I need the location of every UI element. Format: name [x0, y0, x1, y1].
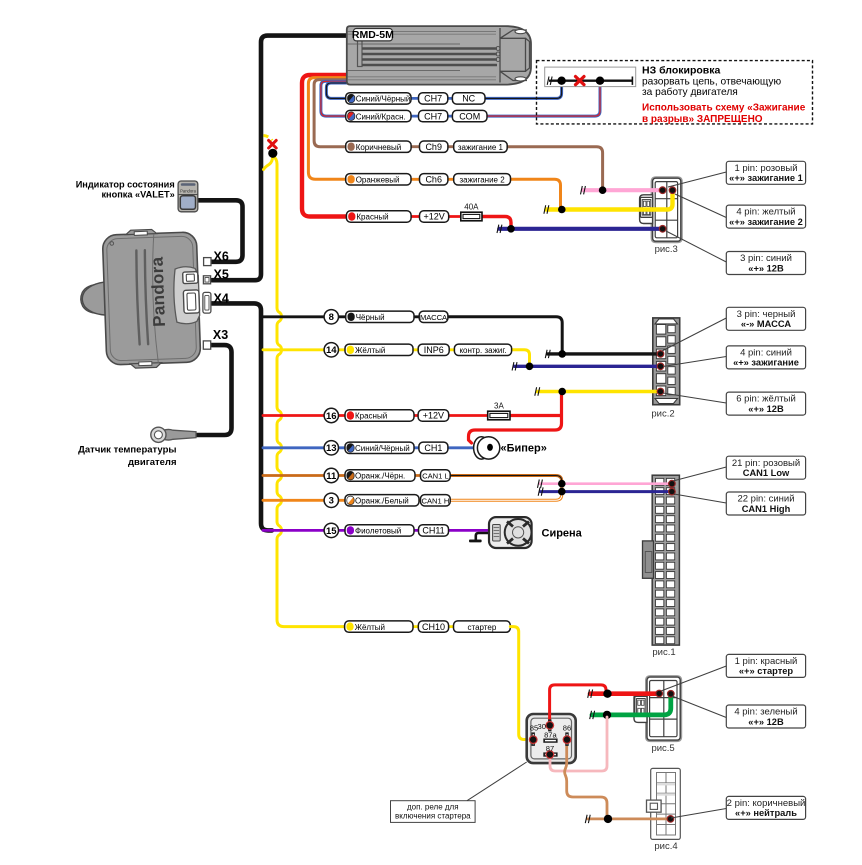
svg-text:3А: 3А: [494, 402, 504, 411]
callout line fig.1 pin21: [673, 467, 726, 481]
svg-text:+12V: +12V: [423, 411, 444, 421]
wire label Фиолетовый CH11: [345, 525, 414, 536]
junction node brown-pink: [599, 186, 607, 194]
relay pin 87: [543, 752, 557, 756]
svg-text:МАССА: МАССА: [420, 313, 448, 322]
callout line fig.3 pin1: [668, 172, 726, 187]
svg-text:CAN1 H: CAN1 H: [421, 497, 449, 506]
wire dark blue CAN1 High: [541, 490, 672, 493]
junction node CAN High: [558, 488, 566, 496]
module RMD-5M body: [347, 26, 531, 85]
wire tan relay86 to neutral: [565, 742, 607, 817]
svg-text:Использовать схему «Зажигание: Использовать схему «Зажигание: [642, 103, 806, 114]
wire yellow dashed (cut mark): [264, 136, 273, 141]
pin 2 fig.4: [667, 815, 675, 823]
wire label Чёрный МАССА: [346, 311, 414, 322]
junction node neutral: [604, 815, 612, 823]
pin 22 fig.1: [668, 488, 676, 496]
svg-text:рис.3: рис.3: [655, 244, 678, 255]
svg-text:INP6: INP6: [424, 345, 444, 355]
callout line fig.2 pin4: [663, 357, 726, 367]
junction node green 12V: [603, 711, 611, 719]
svg-text:85: 85: [530, 724, 538, 733]
wire yellow cut stub to harness: [264, 155, 273, 170]
blocking circuit wire with cut: [549, 79, 632, 81]
svg-text:86: 86: [563, 724, 571, 733]
wire tan neutral horizontal: [588, 818, 671, 821]
node pin 16: [324, 408, 338, 422]
callout line fig.5 pin1: [661, 666, 726, 691]
node blocking right: [596, 77, 604, 85]
Pandora alarm unit: [78, 228, 201, 370]
svg-text:Pandora: Pandora: [148, 256, 169, 327]
svg-text:«+» стартер: «+» стартер: [739, 666, 794, 676]
svg-text:COM: COM: [459, 111, 480, 121]
svg-text:зажигание 1: зажигание 1: [458, 143, 504, 152]
wire pink ignition1 to fig.3 pin1: [583, 188, 663, 192]
svg-text:13: 13: [326, 443, 337, 454]
svg-text:«Бипер»: «Бипер»: [501, 442, 547, 454]
svg-text:Жёлтый: Жёлтый: [355, 623, 385, 632]
wire label Коричневый Ch9 зажигание 1: [346, 141, 411, 152]
svg-text:+12V: +12V: [423, 212, 444, 222]
junction node red-darkblue: [507, 225, 515, 233]
svg-text:8: 8: [329, 312, 334, 323]
wire dark blue 12V to fig.3 pin3: [499, 227, 662, 231]
svg-text:CH7: CH7: [424, 111, 442, 121]
connector X4: [203, 292, 211, 313]
relay body: [527, 714, 576, 763]
wire brown to pink junction: [507, 147, 602, 188]
svg-text:14: 14: [326, 345, 337, 356]
wire orange Ch6 feed: [308, 78, 348, 180]
wire red relay30 to starter feed: [550, 685, 606, 724]
node pin 13: [324, 441, 338, 455]
svg-text:Сирена: Сирена: [542, 528, 583, 540]
node pin 15: [324, 523, 338, 537]
svg-text:контр. зажиг.: контр. зажиг.: [459, 346, 506, 355]
svg-text:Ch6: Ch6: [425, 175, 442, 185]
svg-text:рис.4: рис.4: [654, 841, 677, 852]
callout 4 pin зеленый: [726, 705, 805, 728]
node pin 14: [324, 343, 338, 357]
label relay note: [391, 801, 476, 823]
svg-text:87: 87: [546, 744, 554, 753]
blocking circuit inner box: [545, 67, 636, 87]
connector fig.5 (starter connector): [634, 677, 680, 754]
wire brown Ch9 feed: [314, 80, 348, 147]
wire yellow starter feed (vertical with hops): [273, 156, 345, 627]
wire thick red starter: [590, 691, 659, 696]
pin 4 fig.3: [669, 186, 677, 194]
connector X3: [203, 341, 210, 349]
connector fig.3 (ignition connector): [640, 178, 681, 255]
svg-text:Синий/Чёрный: Синий/Чёрный: [355, 444, 410, 453]
wire blue/black NC to blocking circuit: [485, 84, 562, 98]
temperature sensor ring terminal: [151, 427, 196, 442]
svg-text:рис.2: рис.2: [651, 409, 674, 420]
junction node black MACCA: [558, 350, 566, 358]
svg-text:RMD-5M: RMD-5M: [352, 29, 394, 41]
svg-text:Синий/Чёрный: Синий/Чёрный: [356, 95, 411, 104]
wire X3 to temperature sensor: [196, 345, 232, 435]
callout line fig.4 pin2: [671, 809, 726, 819]
callout 21 pin розовый: [726, 456, 805, 479]
svg-text:кнопка «VALET»: кнопка «VALET»: [101, 190, 174, 200]
svg-text:Жёлтый: Жёлтый: [355, 346, 385, 355]
wire label Оранж./Чёрн. CAN1 L: [345, 470, 415, 481]
wire VALET button to X6: [197, 200, 243, 261]
junction node yellow-blue: [526, 363, 534, 371]
svg-text:X4: X4: [214, 292, 229, 306]
wire red 3A to 12V junction and beeper: [469, 392, 562, 444]
callout 1 pin красный: [726, 654, 805, 677]
junction node red starter: [603, 690, 611, 698]
svg-text:Коричневый: Коричневый: [356, 143, 402, 152]
pin 21 fig.1: [668, 480, 676, 488]
svg-text:NC: NC: [462, 94, 475, 104]
svg-text:X3: X3: [213, 328, 228, 342]
svg-text:«+» нейтраль: «+» нейтраль: [735, 808, 797, 818]
fuse 3A: [488, 402, 510, 420]
svg-text:включения стартера: включения стартера: [395, 812, 471, 821]
wire black MACCA to fig.2 pin3: [448, 317, 562, 352]
svg-text:«+» 12В: «+» 12В: [748, 263, 784, 273]
callout line fig.3 pin4: [675, 194, 726, 218]
wire label Оранжевый Ch6 зажигание 2: [346, 174, 411, 185]
pin 4 fig.5: [667, 690, 675, 698]
wire label Красный +12V (16): [345, 410, 414, 421]
callout line relay note: [467, 762, 527, 801]
callout 3 pin синий: [726, 252, 805, 275]
callout line fig.1 pin22: [674, 494, 726, 503]
junction node CAN Low: [558, 480, 566, 488]
wire thick green 12V: [592, 695, 671, 715]
connector X6: [204, 258, 211, 266]
svg-text:15: 15: [326, 526, 337, 537]
svg-text:87a: 87a: [544, 730, 557, 739]
wire CAN1 L (orange/black): [450, 476, 562, 488]
blocking circuit dashed box: [537, 61, 813, 124]
node blocking left: [557, 77, 565, 85]
svg-text:Красный: Красный: [355, 412, 387, 421]
svg-text:рис.1: рис.1: [652, 647, 675, 658]
wire yellow ignition-control to fig.2 pin4: [512, 350, 530, 365]
relay pin 87a: [543, 739, 557, 743]
svg-text:«+» 12В: «+» 12В: [748, 404, 784, 414]
svg-text:доп. реле для: доп. реле для: [407, 803, 459, 812]
svg-text:40A: 40A: [464, 203, 479, 212]
wire label Синий/Чёрный CH7 NC: [346, 93, 411, 104]
wire yellow to relay pin85: [510, 627, 532, 740]
svg-text:стартер: стартер: [468, 623, 497, 632]
svg-text:X6: X6: [214, 250, 229, 264]
wire blue/red COM to blocking circuit: [487, 84, 600, 116]
fuse 40A: [461, 203, 482, 221]
svg-text:«+» зажигание 2: «+» зажигание 2: [729, 217, 803, 227]
wire label Синий/Чёрный CH1: [345, 442, 414, 453]
wire row stubs: [411, 97, 419, 100]
svg-text:НЗ блокировка: НЗ блокировка: [642, 65, 720, 77]
svg-text:за работу двигателя: за работу двигателя: [642, 86, 738, 98]
pin 1 fig.5: [655, 690, 663, 698]
pin 3 fig.3: [659, 225, 667, 233]
svg-text:CAN1 L: CAN1 L: [422, 472, 449, 481]
wire blue/red CH7 COM feed: [321, 81, 348, 116]
wire label Красный +12V: [346, 211, 411, 222]
svg-text:Синий/Красн.: Синий/Красн.: [356, 112, 406, 121]
callout 1 pin розовый: [726, 161, 805, 184]
wire blue/black CH7 NC feed: [326, 83, 348, 98]
wire label Жёлтый INP6 контр. зажиг.: [345, 344, 413, 355]
wire X4 harness bundle (black vertical): [212, 303, 272, 530]
svg-text:«-» МАССА: «-» МАССА: [741, 319, 791, 329]
callout 4 pin синий: [726, 346, 805, 369]
svg-text:CH1: CH1: [424, 443, 442, 453]
svg-text:Чёрный: Чёрный: [356, 313, 385, 322]
svg-text:двигателя: двигателя: [128, 457, 176, 468]
callout 3 pin черный: [726, 307, 805, 330]
svg-text:X5: X5: [214, 268, 229, 282]
cut symbol red X blocking: [576, 77, 585, 85]
callout line fig.5 pin4: [672, 696, 726, 718]
callout 4 pin желтый: [726, 205, 805, 228]
cut symbol red X: [269, 140, 277, 148]
siren icon: [489, 517, 532, 548]
svg-text:рис.5: рис.5: [651, 743, 674, 754]
svg-text:Фиолетовый: Фиолетовый: [355, 527, 401, 536]
callout line fig.3 pin3: [666, 231, 726, 262]
svg-text:Оранжевый: Оранжевый: [356, 176, 400, 185]
node pin 8: [324, 310, 338, 324]
wire red +12V feed to RMD-5M: [302, 75, 348, 217]
callout 2 pin коричневый: [726, 796, 805, 819]
pin 6 fig.2: [657, 388, 665, 396]
pin 1 fig.3: [659, 186, 667, 194]
svg-text:CAN1 Low: CAN1 Low: [743, 468, 790, 478]
callout 6 pin жёлтый: [726, 392, 805, 415]
wire CAN1 H (orange/white): [450, 488, 562, 501]
svg-text:16: 16: [326, 411, 337, 422]
node pin 3: [324, 493, 338, 507]
wire X5 to RMD-5M (black): [212, 36, 352, 281]
svg-text:CH11: CH11: [422, 526, 444, 536]
svg-text:«+» зажигание 1: «+» зажигание 1: [729, 173, 803, 183]
wire pink relay87 to green: [550, 717, 607, 771]
relay pin 85: [532, 732, 535, 746]
connector fig.2 (vehicle connector): [651, 318, 679, 420]
svg-text:Датчик температуры: Датчик температуры: [78, 445, 176, 456]
svg-text:CH7: CH7: [424, 94, 442, 104]
wire pink CAN1 Low: [540, 482, 672, 485]
wire yellow ignition2 to fig.3 pin4: [546, 192, 672, 210]
callout line fig.2 pin6: [663, 393, 726, 403]
svg-text:3: 3: [329, 496, 334, 507]
connector X5: [203, 276, 210, 284]
node pin 11: [324, 468, 338, 482]
callout line fig.2 pin3: [662, 318, 726, 351]
svg-text:«+» 12В: «+» 12В: [748, 717, 784, 727]
beeper icon: [474, 437, 500, 459]
svg-text:CAN1 High: CAN1 High: [742, 504, 791, 514]
junction node orange-yellow: [558, 206, 566, 214]
wire label Жёлтый CH10 стартер: [345, 621, 413, 632]
svg-text:Pandora: Pandora: [180, 189, 197, 194]
svg-text:разорвать цепь, отвечающую: разорвать цепь, отвечающую: [642, 77, 781, 88]
relay pin 30: [548, 719, 551, 731]
pin 3 fig.2: [657, 350, 665, 358]
relay pin 86: [565, 732, 568, 746]
svg-text:в разрыв» ЗАПРЕЩЕНО: в разрыв» ЗАПРЕЩЕНО: [642, 114, 763, 125]
svg-text:CH10: CH10: [422, 622, 445, 632]
svg-text:Красный: Красный: [356, 213, 388, 222]
siren bracket: [470, 533, 489, 541]
wire red 40A to 12V junction: [482, 217, 511, 228]
svg-text:зажигание 2: зажигание 2: [460, 176, 506, 185]
svg-text:«+» зажигание: «+» зажигание: [733, 358, 799, 368]
svg-text:Индикатор состояния: Индикатор состояния: [76, 179, 175, 189]
svg-text:Ch9: Ch9: [425, 142, 442, 152]
svg-text:Оранж./Чёрн.: Оранж./Чёрн.: [355, 472, 405, 481]
junction node on yellow: [268, 149, 277, 158]
label RMD-5M: [352, 29, 394, 42]
svg-text:Оранж./Белый: Оранж./Белый: [355, 497, 409, 506]
wire label Синий/Красн. CH7 COM: [346, 110, 411, 121]
callout 22 pin синий: [726, 492, 805, 515]
pin 4 fig.2: [657, 362, 665, 370]
VALET button indicator: [178, 181, 198, 212]
svg-text:11: 11: [326, 471, 337, 482]
wire dark blue ignition fig.2: [514, 365, 660, 368]
wire yellow 12V fig.2: [537, 390, 660, 393]
wire orange to yellow junction: [511, 179, 561, 207]
connector fig.1 (CAN connector): [643, 475, 680, 658]
connector fig.4 (neutral connector): [647, 768, 681, 852]
junction node red-yellow 12V: [558, 388, 566, 396]
wire label Оранж./Белый CAN1 H: [345, 495, 419, 506]
